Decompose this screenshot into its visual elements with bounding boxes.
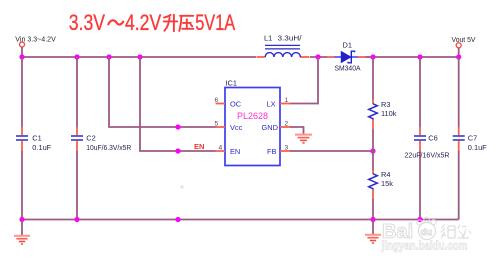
wire FB pin to divider (290, 150, 373, 152)
node Vin terminal (15, 34, 56, 47)
svg-text:Vout 5V: Vout 5V (452, 35, 477, 44)
title 3.3V~4.2V boost 5V1A (69, 10, 235, 35)
capacitor C1 0.1uF (16, 57, 52, 220)
wire ground stub left (21, 220, 23, 236)
capacitor C7 0.1uF (453, 57, 487, 220)
svg-text:IC1: IC1 (226, 79, 238, 88)
junction Vin (19, 54, 24, 59)
svg-text:D1: D1 (343, 41, 352, 50)
svg-text:6: 6 (215, 97, 219, 104)
svg-text:SM340A: SM340A (335, 64, 361, 73)
svg-text:du: du (421, 227, 433, 238)
junction R4 bottom (370, 217, 375, 222)
junction dots on top rail (19, 54, 461, 59)
svg-text:C1: C1 (32, 134, 41, 143)
svg-text:110k: 110k (381, 109, 397, 118)
wire top rail mid (LX junction to diode) (310, 56, 327, 58)
ground at IC pin 2 (295, 135, 312, 143)
junction mid rail (175, 217, 180, 222)
watermark Baidu jingyan (381, 217, 471, 252)
svg-text:4.2V: 4.2V (125, 10, 161, 35)
wire Vcc branch (rail to pin 5) (109, 57, 216, 127)
svg-text:PL2628: PL2628 (237, 111, 268, 122)
ground left (14, 236, 30, 244)
svg-text:jingyan.baidu.com: jingyan.baidu.com (381, 241, 468, 253)
svg-text:L1: L1 (264, 33, 272, 42)
resistor R3 110k (369, 57, 397, 151)
svg-text:Vcc: Vcc (230, 123, 243, 132)
wire top rail left (22, 56, 256, 58)
node Vout terminal (452, 35, 477, 48)
ground right (365, 235, 381, 243)
pin 4 EN stub (216, 150, 226, 152)
svg-text:0.1uF: 0.1uF (468, 143, 487, 152)
svg-text:C2: C2 (86, 134, 95, 143)
pin 1 LX stub (280, 103, 290, 105)
svg-text:2: 2 (285, 120, 289, 127)
svg-text:15k: 15k (381, 179, 393, 188)
svg-text:FB: FB (267, 147, 277, 156)
svg-text:3: 3 (285, 144, 289, 151)
pin 6 OC stub (216, 103, 226, 105)
svg-text:EN: EN (194, 142, 205, 151)
svg-text:1: 1 (285, 97, 289, 104)
wire LX to top rail (290, 57, 318, 104)
wire GND pin to ground (290, 127, 304, 134)
pin 2 GND stub (280, 126, 290, 128)
wire Vin stub (21, 47, 23, 57)
capacitor C6 22uF/16V/x5R (405, 57, 450, 220)
junction ghost artifact (180, 185, 184, 189)
svg-text:5: 5 (215, 120, 219, 127)
svg-text:GND: GND (262, 123, 278, 132)
svg-text:22uF/16V/x5R: 22uF/16V/x5R (405, 151, 450, 160)
junction dots on bottom rail (19, 217, 422, 222)
svg-text:C7: C7 (468, 134, 477, 143)
junction Vcc branch top (106, 54, 111, 59)
junction on EN line (175, 148, 180, 153)
inductor L1 3.3uH (257, 33, 310, 57)
svg-text:3.3uH/: 3.3uH/ (278, 33, 303, 42)
wire ground stub right (372, 220, 374, 235)
svg-text:C6: C6 (428, 134, 437, 143)
capacitor C2 10uF/6.3V/x5R (71, 57, 131, 220)
wire Vout stub (458, 48, 460, 57)
junction R3 top (370, 54, 375, 59)
junction LX (315, 54, 320, 59)
pin 5 Vcc stub (216, 126, 226, 128)
svg-text:0.1uF: 0.1uF (32, 143, 51, 152)
junction C2 top (74, 54, 79, 59)
junction EN branch top (137, 54, 142, 59)
wire bottom rail (22, 219, 459, 221)
diode D1 SM340A schottky (327, 41, 369, 73)
svg-text:R3: R3 (381, 100, 390, 109)
wire EN branch (rail to pin 4) (140, 57, 216, 151)
junction FB / divider (370, 148, 375, 153)
pin 3 FB stub (280, 150, 290, 152)
svg-text:5V1A: 5V1A (195, 10, 235, 35)
junction C1 bottom (19, 217, 24, 222)
junction on Vcc line (175, 124, 180, 129)
svg-text:OC: OC (230, 99, 242, 108)
op-amp U1 : IC1 PL2628 body (225, 79, 280, 166)
svg-text:LX: LX (267, 99, 276, 108)
svg-text:4: 4 (219, 144, 223, 151)
junction C6 bottom (417, 217, 422, 222)
svg-text:EN: EN (230, 147, 240, 156)
junction Vout (456, 54, 461, 59)
junction C6 top (417, 54, 422, 59)
svg-text:3.3V: 3.3V (69, 10, 105, 35)
svg-text:R4: R4 (381, 170, 390, 179)
junction C2 bottom (74, 217, 79, 222)
svg-text:10uF/6.3V/x5R: 10uF/6.3V/x5R (86, 143, 131, 152)
resistor R4 15k (369, 151, 394, 220)
wire top rail right (diode to Vout) (368, 56, 459, 58)
